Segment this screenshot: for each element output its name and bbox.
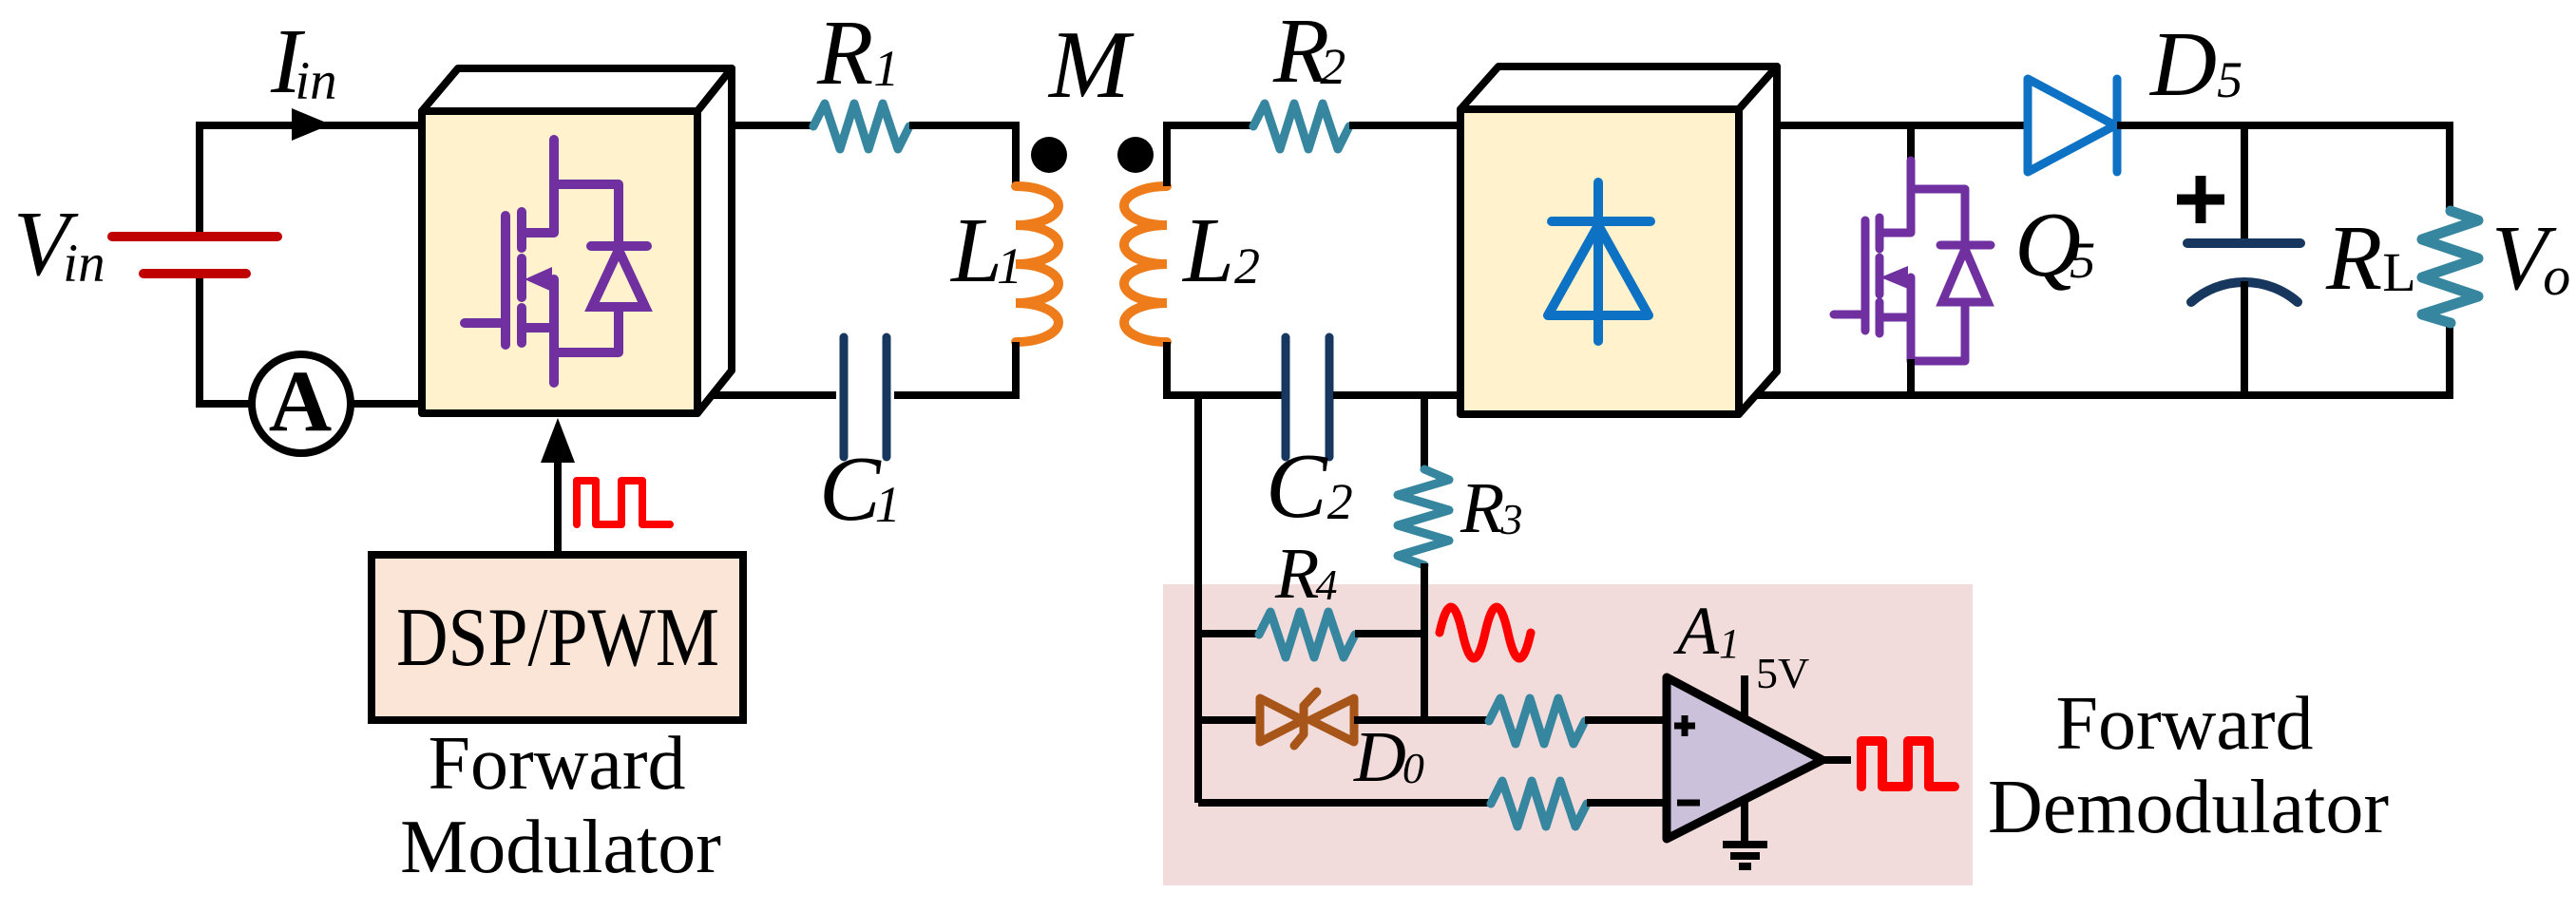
diode D5	[2028, 79, 2117, 172]
wire: output capacitor bottom lead	[2241, 281, 2248, 395]
IGBT/MOSFET symbol inside converter	[465, 140, 647, 383]
wire: D0 to non-inverting input resistor	[1354, 716, 1489, 724]
wire: L1 bottom to C1	[894, 342, 1016, 395]
converter box U1 (3D) top face	[422, 68, 732, 111]
svg-text:L2: L2	[1181, 199, 1260, 301]
wire: R4 to R3 branch node	[1355, 630, 1424, 637]
capacitor C2 plate right	[1326, 337, 1334, 457]
svg-text:Vo: Vo	[2491, 207, 2570, 309]
wire: converter to R1	[713, 122, 813, 129]
svg-text:D5: D5	[2148, 13, 2242, 115]
transistor Q5 arrow	[1880, 266, 1908, 289]
rectifier box (3D) top face	[1460, 66, 1777, 109]
wire: Vin- down to bottom	[200, 278, 252, 404]
output capacitor plus sign	[2177, 176, 2224, 223]
resistor (inverting input)	[1491, 781, 1587, 826]
wire: op-amp output	[1822, 756, 1851, 764]
resistor R2	[1253, 104, 1349, 149]
IGBT arrow	[525, 267, 552, 292]
op-amp A1 triangle	[1667, 677, 1822, 839]
op-amp + input sign	[1674, 715, 1695, 736]
svg-text:RL: RL	[2325, 207, 2416, 309]
wire: demodulator left vertical drop	[1194, 391, 1202, 803]
wire: R2 to rectifier box	[1349, 122, 1482, 129]
wire: R3 bottom to D0 row	[1421, 563, 1428, 720]
current direction arrow Iin	[292, 108, 331, 141]
svg-text:Forward: Forward	[428, 722, 685, 806]
wire: output capacitor top lead	[2241, 125, 2248, 243]
rectifier diode symbol	[1548, 182, 1651, 341]
converter box U1 (3D) right face	[697, 68, 732, 413]
capacitor C2 plate left	[1282, 337, 1290, 457]
sine wave symbol (demodulated signal)	[1440, 607, 1531, 658]
svg-text:R4: R4	[1274, 534, 1337, 614]
DSP/PWM control box	[372, 555, 743, 720]
wire: C2 to rectifier bottom with junctions	[1333, 391, 1482, 399]
demodulator shaded region	[1163, 584, 1973, 885]
transistor Q5 drain stub	[1907, 125, 1915, 163]
resistor R1	[813, 104, 909, 149]
converter box U1 (3D) front face	[422, 111, 697, 413]
output capacitor plate - (curved)	[2191, 282, 2298, 302]
inductor L2 (secondary winding)	[1124, 186, 1167, 342]
output capacitor plate +	[2187, 238, 2300, 248]
battery Vin plate -	[143, 269, 246, 278]
wire: ammeter to converter box	[351, 400, 437, 408]
resistor RL (load)	[2422, 211, 2478, 323]
op-amp - input sign	[1677, 800, 1700, 807]
svg-text:R2: R2	[1272, 0, 1345, 102]
wire: bottom bus rectifier to output corner	[1753, 321, 2450, 395]
square wave symbol (PWM signal)	[577, 481, 670, 524]
transistor Q5 source stub	[1907, 359, 1915, 395]
svg-text:A: A	[269, 352, 332, 449]
wire: R4 row left lead	[1198, 630, 1259, 637]
svg-text:Forward: Forward	[2055, 682, 2313, 766]
wire: rectifier to Q5/D5 top bus	[1753, 122, 2028, 129]
wire: L2 bottom to C2	[1167, 342, 1282, 395]
wire: D5 to output corner	[2117, 125, 2450, 211]
square wave symbol (demodulator output)	[1861, 741, 1955, 787]
svg-text:5V: 5V	[1756, 649, 1809, 697]
svg-text:C2: C2	[1266, 435, 1353, 537]
svg-text:L1: L1	[949, 199, 1022, 301]
svg-text:Q5: Q5	[2014, 194, 2095, 295]
gate drive arrow line	[554, 454, 562, 555]
battery Vin plate +	[112, 232, 277, 241]
svg-text:R1: R1	[816, 2, 899, 104]
resistor (non-inverting input)	[1489, 698, 1585, 744]
svg-text:DSP/PWM: DSP/PWM	[396, 592, 719, 684]
resistor R3	[1398, 469, 1449, 565]
resistor R4	[1259, 612, 1355, 657]
svg-text:Demodulator: Demodulator	[1988, 766, 2389, 849]
svg-text:R3: R3	[1460, 468, 1522, 548]
wire: R3 top drop	[1421, 391, 1428, 469]
wire: L2 top to R2	[1167, 125, 1253, 186]
wire: C1 to converter bottom	[713, 391, 836, 399]
diode D0 (bidirectional)	[1260, 692, 1354, 746]
rectifier box (3D) front face	[1460, 109, 1739, 414]
transformer dot secondary	[1117, 137, 1154, 173]
capacitor C1 plate right	[883, 337, 891, 457]
rectifier box (3D) right face	[1739, 66, 1777, 414]
svg-text:Modulator: Modulator	[400, 806, 721, 889]
svg-text:M: M	[1047, 11, 1135, 119]
wire: R1 to L1 top	[909, 125, 1016, 186]
wire: resistor to op-amp + input	[1585, 716, 1669, 724]
ammeter circle	[252, 354, 351, 453]
transistor Q5 (MOSFET with body diode)	[1834, 161, 1991, 361]
wire: resistor to op-amp - input	[1587, 799, 1669, 807]
op-amp 5V supply lead	[1741, 675, 1748, 719]
svg-text:Iin: Iin	[270, 10, 337, 112]
transformer dot primary	[1031, 137, 1067, 173]
op-amp ground lead	[1741, 799, 1748, 845]
wire: inverting row from left vertical	[1198, 799, 1491, 807]
wire: input loop top (Vin+ to converter)	[200, 125, 437, 233]
ground symbol	[1723, 845, 1767, 866]
gate drive arrowhead	[541, 418, 575, 463]
wire: D0 row left lead	[1198, 716, 1260, 724]
capacitor C1 plate left	[840, 337, 849, 457]
svg-text:Vin: Vin	[13, 193, 105, 294]
inductor L1 (primary winding)	[1016, 186, 1059, 342]
